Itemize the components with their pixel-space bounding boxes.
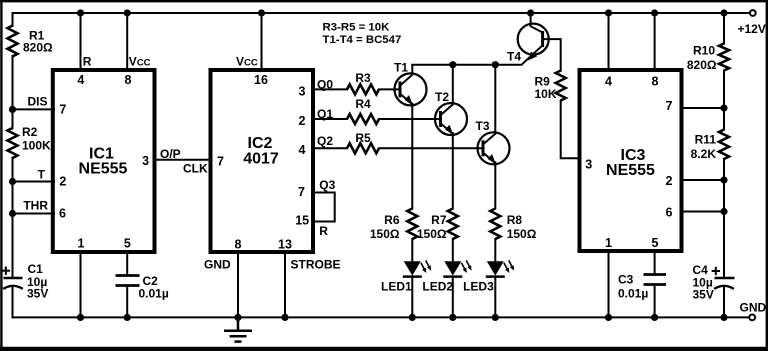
svg-text:Q2: Q2 bbox=[317, 134, 333, 148]
node top rail right rail bbox=[720, 9, 727, 16]
labels left column bbox=[22, 29, 53, 301]
node THR bbox=[9, 210, 16, 217]
wire LED1 to bottom rail bbox=[411, 277, 413, 318]
wire IC3 pin7 to right rail bbox=[682, 107, 725, 109]
node bottom rail LED2 bbox=[449, 314, 456, 321]
svg-text:150Ω: 150Ω bbox=[370, 227, 400, 241]
wire IC1 pin4 to top rail bbox=[80, 13, 82, 70]
resistor R10 bbox=[719, 44, 729, 71]
svg-text:7: 7 bbox=[59, 103, 66, 117]
node bottom rail IC3 pin5 bbox=[651, 314, 658, 321]
wire T1 emitter to R6 bbox=[411, 104, 413, 209]
svg-text:VCC: VCC bbox=[236, 54, 258, 68]
svg-text:2: 2 bbox=[299, 114, 306, 128]
transistor T2 bbox=[435, 103, 467, 135]
wire IC3 pin4 to top rail bbox=[608, 13, 610, 70]
capacitor C1 electrolytic bbox=[2, 267, 23, 289]
wire IC2 pin13 STROBE to bottom rail bbox=[284, 252, 286, 317]
svg-text:6: 6 bbox=[666, 205, 673, 219]
svg-text:C3: C3 bbox=[618, 273, 634, 287]
svg-text:R7: R7 bbox=[431, 213, 447, 227]
wire DIS to IC1 pin7 bbox=[13, 108, 55, 110]
svg-text:STROBE: STROBE bbox=[291, 258, 341, 272]
node bus T2 collector bbox=[449, 61, 456, 68]
labels IC1 top bbox=[83, 54, 208, 300]
node top rail pin4 bbox=[77, 9, 84, 16]
wire T3 collector riser bbox=[494, 65, 496, 134]
resistor R4 bbox=[347, 114, 379, 124]
LED2 bbox=[443, 260, 471, 276]
svg-text:R: R bbox=[319, 224, 328, 238]
wire IC1 pin5 to C2 bbox=[126, 252, 128, 276]
wire IC2 pin16 to top rail bbox=[261, 13, 263, 70]
wire top +12V rail bbox=[13, 12, 751, 14]
node bottom rail pin1 bbox=[77, 314, 84, 321]
IC1 NE555 box bbox=[53, 70, 155, 252]
svg-text:NE555: NE555 bbox=[606, 162, 655, 179]
node bottom rail LED3 bbox=[492, 314, 499, 321]
wire R6 to LED1 bbox=[411, 239, 413, 262]
svg-text:T4: T4 bbox=[507, 50, 521, 64]
node top rail pin8 bbox=[124, 9, 131, 16]
node right rail pin6 bbox=[720, 208, 727, 215]
svg-text:15: 15 bbox=[295, 214, 309, 228]
wire C4 to bottom rail bbox=[723, 287, 725, 318]
resistor R3 bbox=[347, 84, 379, 94]
svg-text:2: 2 bbox=[59, 175, 66, 189]
capacitor C2 bbox=[116, 276, 140, 286]
wire IC1 pin8 to top rail bbox=[126, 13, 128, 70]
node bottom rail IC2 gnd bbox=[234, 314, 241, 321]
svg-text:7: 7 bbox=[298, 185, 305, 199]
resistor R2 bbox=[8, 128, 18, 158]
svg-text:820Ω: 820Ω bbox=[687, 58, 717, 72]
wire R7 to LED2 bbox=[452, 239, 454, 262]
resistor R9 bbox=[556, 71, 566, 101]
IC3 NE555 box bbox=[580, 70, 682, 251]
svg-text:1: 1 bbox=[605, 236, 612, 250]
wire T to IC1 pin2 bbox=[13, 181, 55, 183]
labels IC2 bbox=[204, 54, 341, 271]
svg-text:DIS: DIS bbox=[27, 95, 47, 109]
svg-text:T1-T4 = BC547: T1-T4 = BC547 bbox=[323, 34, 402, 46]
svg-text:R11: R11 bbox=[695, 133, 717, 147]
wire IC2 pin4 Q2 to R5 bbox=[313, 147, 347, 149]
svg-text:T: T bbox=[38, 168, 46, 182]
svg-text:T2: T2 bbox=[435, 90, 449, 104]
wire R11 to pin2 node to pin6 node to C4 bbox=[723, 159, 725, 278]
svg-text:GND: GND bbox=[204, 258, 231, 272]
capacitor C3 bbox=[644, 275, 667, 285]
node bottom rail strobe bbox=[281, 314, 288, 321]
svg-text:T1: T1 bbox=[394, 61, 408, 75]
IC2 4017 box bbox=[211, 70, 314, 252]
transistor T1 bbox=[395, 65, 427, 106]
LED3 bbox=[486, 260, 514, 276]
wire C2 to bottom rail bbox=[126, 286, 128, 318]
svg-text:35V: 35V bbox=[27, 287, 48, 301]
wire IC2 pin2 Q1 to R4 bbox=[313, 118, 347, 120]
svg-text:4: 4 bbox=[299, 143, 306, 157]
svg-text:6: 6 bbox=[59, 207, 66, 221]
svg-text:4017: 4017 bbox=[243, 151, 279, 168]
resistor R11 bbox=[719, 130, 729, 160]
wire R2-to-T node to THR node to C1 bbox=[12, 158, 14, 278]
node bottom rail right rail bbox=[720, 314, 727, 321]
svg-text:13: 13 bbox=[278, 237, 292, 251]
wire Q3 pin7 to R pin15 loop bbox=[313, 193, 335, 222]
node top rail IC3 pin4 bbox=[605, 9, 612, 16]
node top rail IC3 pin8 bbox=[651, 9, 658, 16]
node bus T3 collector bbox=[492, 61, 499, 68]
labels transistor network bbox=[355, 50, 557, 294]
svg-text:LED3: LED3 bbox=[463, 279, 494, 293]
svg-text:R8: R8 bbox=[507, 213, 523, 227]
labels right column bbox=[618, 22, 767, 315]
wire IC3 pin1 to bottom rail bbox=[608, 251, 610, 317]
wire LED2 to bottom rail bbox=[452, 277, 454, 318]
svg-text:7: 7 bbox=[666, 99, 673, 113]
wire R4 to T2 base bbox=[379, 118, 441, 120]
wire IC3 pin6 to right rail bbox=[682, 211, 725, 213]
wire R1-to-DIS node bbox=[12, 56, 14, 128]
wire right rail top-to-R10 bbox=[723, 13, 725, 44]
svg-text:LED2: LED2 bbox=[422, 279, 453, 293]
svg-text:4: 4 bbox=[77, 73, 84, 87]
wire IC2 pin3 Q0 to R3 bbox=[313, 88, 347, 90]
wire R5 to T3 base bbox=[379, 147, 483, 149]
wire T3 emitter to R8 bbox=[494, 162, 496, 208]
wire THR to IC1 pin6 bbox=[13, 213, 55, 215]
svg-text:CLK: CLK bbox=[183, 162, 208, 176]
resistor R1 bbox=[8, 26, 18, 57]
wire IC3 pin8 to top rail bbox=[654, 13, 656, 70]
svg-text:LED1: LED1 bbox=[381, 279, 412, 293]
wire pin7 node to R11 bbox=[723, 108, 725, 130]
svg-text:150Ω: 150Ω bbox=[507, 227, 537, 241]
svg-text:Q1: Q1 bbox=[317, 107, 333, 121]
svg-text:3: 3 bbox=[142, 154, 149, 168]
svg-text:8.2K: 8.2K bbox=[691, 147, 717, 161]
svg-text:THR: THR bbox=[23, 199, 48, 213]
svg-text:VCC: VCC bbox=[129, 54, 151, 68]
wire R8 to LED3 bbox=[494, 239, 496, 262]
svg-text:Q0: Q0 bbox=[317, 78, 333, 92]
node T bbox=[9, 178, 16, 185]
svg-text:R10: R10 bbox=[693, 44, 715, 58]
svg-text:+12V: +12V bbox=[738, 22, 766, 36]
node top rail T4 collector bbox=[527, 9, 534, 16]
node top rail pin16 bbox=[258, 9, 265, 16]
wire T2 emitter to R7 bbox=[452, 133, 454, 209]
wire C1-to-bottom-rail bbox=[12, 287, 14, 317]
wire IC3 pin2 to right rail bbox=[682, 179, 725, 181]
transistor T3 bbox=[478, 132, 510, 164]
terminal GND bbox=[749, 315, 755, 321]
svg-text:10K: 10K bbox=[535, 87, 557, 101]
svg-text:R: R bbox=[83, 54, 92, 68]
svg-text:8: 8 bbox=[235, 237, 242, 251]
svg-text:2: 2 bbox=[666, 174, 673, 188]
wire T4 collector to top rail bbox=[531, 13, 543, 33]
svg-text:3: 3 bbox=[585, 157, 592, 171]
svg-text:R4: R4 bbox=[355, 97, 371, 111]
transistor T4 bbox=[518, 24, 549, 65]
svg-text:R5: R5 bbox=[355, 131, 371, 145]
wire collector bus T1-T4 bbox=[412, 64, 521, 66]
svg-text:Q3: Q3 bbox=[319, 178, 335, 192]
svg-text:150Ω: 150Ω bbox=[417, 227, 447, 241]
node DIS bbox=[9, 106, 16, 113]
svg-text:8: 8 bbox=[652, 75, 659, 89]
svg-text:5: 5 bbox=[124, 237, 131, 251]
resistor R5 bbox=[347, 143, 379, 153]
wire IC3 pin5 to C3 bbox=[654, 251, 656, 275]
svg-text:R6: R6 bbox=[384, 213, 400, 227]
resistor R8 bbox=[490, 209, 500, 240]
node right rail pin7 bbox=[720, 104, 727, 111]
ground symbol under IC2 pin8 bbox=[224, 317, 252, 341]
wire IC2 pin8 GND to bottom rail bbox=[237, 252, 239, 317]
wire T4 base lead to R9 bbox=[543, 39, 561, 70]
svg-text:O/P: O/P bbox=[160, 147, 181, 161]
wire R10 to pin7 node bbox=[723, 71, 725, 109]
svg-text:R3: R3 bbox=[355, 71, 371, 85]
svg-text:0.01µ: 0.01µ bbox=[618, 287, 648, 301]
wire C3 to bottom rail bbox=[654, 285, 656, 318]
svg-text:R2: R2 bbox=[22, 125, 38, 139]
wire IC1 pin3 O/P to IC2 pin7 CLK bbox=[155, 159, 211, 161]
svg-text:820Ω: 820Ω bbox=[23, 41, 53, 55]
wire bottom ground rail bbox=[13, 316, 750, 318]
node right rail pin2 bbox=[720, 176, 727, 183]
svg-text:16: 16 bbox=[254, 73, 268, 87]
svg-text:8: 8 bbox=[125, 73, 132, 87]
terminal +12V bbox=[750, 10, 756, 16]
svg-text:1: 1 bbox=[78, 237, 85, 251]
svg-text:T3: T3 bbox=[476, 119, 490, 133]
wire T2 collector riser bbox=[452, 65, 454, 105]
svg-text:4: 4 bbox=[605, 75, 612, 89]
wire LED3 to bottom rail bbox=[494, 277, 496, 318]
svg-text:5: 5 bbox=[652, 236, 659, 250]
node bottom rail pin5 bbox=[124, 314, 131, 321]
wire R3 to T1 base bbox=[379, 88, 400, 90]
wire R9 to IC3 pin3 bbox=[561, 101, 580, 159]
svg-text:7: 7 bbox=[217, 155, 224, 169]
resistor R7 bbox=[448, 209, 458, 240]
svg-text:R3-R5 = 10K: R3-R5 = 10K bbox=[323, 22, 391, 34]
wire IC1 pin1 to bottom rail bbox=[80, 252, 82, 317]
node bottom rail LED1 bbox=[409, 314, 416, 321]
resistor R6 bbox=[407, 209, 417, 240]
capacitor C4 electrolytic bbox=[712, 267, 735, 289]
svg-text:35V: 35V bbox=[693, 287, 714, 301]
svg-text:3: 3 bbox=[299, 85, 306, 99]
LED1 bbox=[403, 260, 431, 276]
wire left vertical segment rail-to-R1 bbox=[12, 13, 14, 26]
svg-text:0.01µ: 0.01µ bbox=[139, 286, 169, 300]
svg-text:100K: 100K bbox=[22, 139, 51, 153]
svg-text:NE555: NE555 bbox=[79, 161, 128, 178]
node bottom rail IC3 pin1 bbox=[605, 314, 612, 321]
svg-text:GND: GND bbox=[740, 301, 767, 315]
